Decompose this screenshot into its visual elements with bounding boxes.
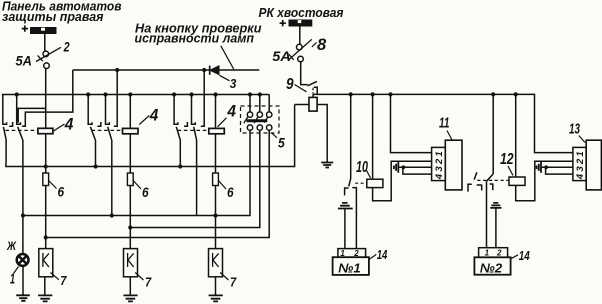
wire: coil 4c to resistor 6c [215, 134, 217, 173]
svg-text:4: 4 [149, 107, 159, 125]
svg-text:2: 2 [63, 40, 70, 55]
label 14 (box №2) [511, 249, 530, 263]
lamp unit 7a [39, 249, 53, 277]
connector 5 upper pin circles [247, 112, 272, 117]
mechanical link 4a [5, 129, 38, 131]
coil of relay 9 [309, 97, 317, 111]
label 7b [135, 273, 152, 290]
box №1 terminal block [338, 249, 366, 258]
relay 4b contact B arm [108, 127, 112, 140]
wire: ground to connector 11 pin 3 [398, 166, 431, 168]
junction dot pin 3 (11) [402, 165, 406, 169]
relay 4c contact B feed [192, 95, 196, 125]
lamp test line (to test button) [73, 69, 259, 71]
relay 4a contact B feed [17, 95, 21, 125]
label 5А (breaker 2) [16, 53, 33, 69]
resistor 6c [213, 173, 219, 186]
label Ж [6, 241, 17, 253]
lamp unit 7c [209, 249, 223, 277]
mechanical link 4b [92, 129, 123, 131]
unit 12 [509, 177, 525, 185]
wire: coil 4b to resistor 6b [129, 134, 131, 173]
svg-text:5: 5 [278, 136, 285, 151]
connector 11 pin block [432, 147, 446, 180]
junction dots on main bus [15, 92, 262, 96]
svg-text:4: 4 [226, 102, 236, 120]
label №2 [480, 260, 503, 275]
wire: ground to connector 13 pin 3 [541, 166, 573, 168]
relay 4c contact A arm [176, 127, 180, 140]
wire: arm B of 4b down to line A [111, 140, 113, 216]
connector 5 interface bar [247, 119, 268, 122]
wire: right bus to switch of unit 12 [492, 94, 494, 174]
label 6c [218, 181, 234, 200]
relay 4a contact A fixed stub [9, 122, 12, 126]
mechanical link relay 9 [312, 88, 314, 94]
svg-text:РК хвостовая: РК хвостовая [259, 5, 344, 20]
ground (7c) [209, 295, 223, 301]
switch arm right (unit 12) and wire to box №2 pin 1 [487, 174, 494, 248]
wire: arm B of 4a down to lamp 1 [22, 140, 24, 254]
wire: arm A down to common line [5, 140, 7, 163]
wire: ground stack to box №1 pin 1 [344, 209, 346, 249]
label 4 (group c) [218, 102, 237, 126]
svg-text:4: 4 [64, 115, 74, 133]
ground (lamp 1) [16, 295, 30, 301]
lamp-test step wire to contact B stub of 4a [22, 70, 73, 126]
wire: arm A of 4b to common line [95, 140, 97, 167]
relay 9 contact arm [308, 81, 317, 85]
relay group 4a: contact A feed [3, 95, 7, 125]
wire: connector 13 pin 4 to ground point [546, 167, 573, 174]
connector 5 engagement slashes [244, 117, 268, 123]
wire: unit 12 to connector 13 pin 2 [516, 161, 573, 200]
switch terminal right (to box №1 pin 2) [352, 188, 357, 249]
label 14 (box №1) [369, 248, 387, 262]
wire: breaker 2 down through bus to coil 4a [45, 69, 47, 129]
wire: 7c to ground [215, 277, 217, 295]
right bus from relay 9 to connector 13 pin 1 [313, 94, 573, 152]
svg-text:5А: 5А [272, 48, 291, 64]
relay 4a contact A arm [3, 127, 6, 140]
wire: lamp 1 to ground [22, 266, 24, 295]
coil 4c [209, 128, 225, 133]
svg-text:6: 6 [227, 185, 234, 200]
wire: coil 9 top to right bus [312, 94, 314, 97]
svg-text:9: 9 [286, 76, 294, 93]
line C: resistor 6a column to connector 5 pin 3 [46, 130, 270, 237]
pin numbers 4321 (connector 13) [575, 149, 586, 180]
wire: bus to coil 4c [215, 95, 217, 129]
wire: right bus to connector 11 pin 1 [391, 94, 432, 152]
wire: arm B of 4c down to line A [196, 140, 198, 216]
common return line to relay 9 [6, 105, 295, 167]
circuit breaker 2 (АЗС 5А) [36, 47, 61, 68]
wire: coil 4a to resistor 6a [45, 134, 47, 173]
wire: 7b to ground [129, 277, 131, 295]
unit 10 [367, 179, 383, 187]
junction dots line A [21, 213, 218, 217]
box №2 pin numbers [485, 248, 502, 257]
mechanical link to unit 10 [355, 182, 367, 184]
box №2 terminal block [479, 248, 508, 258]
wire: bus to coil 4b [129, 95, 131, 129]
connector 13 body [586, 140, 601, 190]
relay group 4c: contact A feed [174, 95, 178, 125]
title: Панель автоматов защиты правая [2, 0, 122, 24]
svg-text:10: 10 [356, 159, 368, 176]
svg-text:исправности ламп: исправности ламп [135, 31, 255, 45]
label 4 (group b) [139, 107, 158, 125]
relay 4b contact B feed [106, 95, 110, 125]
svg-text:№2: №2 [480, 260, 503, 275]
label 13 [569, 120, 585, 142]
label 12 [500, 151, 514, 176]
ground (coil 9) [321, 163, 333, 168]
bus bar (РК) right [289, 20, 313, 27]
svg-text:7: 7 [230, 275, 237, 290]
wire: bar to breaker 8 [299, 27, 301, 45]
pin numbers 4321 (connector 11) [434, 149, 445, 180]
label 1 [10, 267, 19, 288]
box №2 body [474, 257, 510, 274]
inverted ground on box №1 pin 1 wire [338, 203, 353, 209]
main bus left [2, 94, 269, 96]
svg-text:3: 3 [230, 77, 237, 91]
svg-text:5А: 5А [16, 53, 33, 69]
label 4 (group a) [54, 115, 74, 133]
svg-text:4321: 4321 [434, 149, 445, 180]
label 7a [51, 273, 68, 289]
relay 4c contact A fixed stub [184, 122, 187, 126]
label 6a [49, 181, 65, 200]
resistor 6b [127, 173, 133, 186]
label 10 [356, 159, 371, 178]
coil 4b [123, 128, 139, 133]
wire: breaker 8 to relay 9 contact [301, 62, 308, 85]
label 8 [312, 36, 327, 54]
lamp unit 7b [124, 249, 138, 277]
label №1 [338, 260, 361, 275]
wire: coil 9 left side to common return [295, 104, 309, 106]
diode 3 [210, 66, 219, 75]
step wire from coil feed to contact B column [18, 108, 46, 122]
svg-text:12: 12 [500, 151, 514, 168]
wire: right bus to unit 10 [372, 94, 374, 179]
svg-text:Ж: Ж [6, 241, 17, 253]
relay 4b contact A fixed stub [97, 122, 100, 126]
label 5 [272, 133, 286, 151]
leader from text to lamp-test line [221, 46, 234, 70]
relay 4b contact A arm [90, 127, 95, 140]
plus terminal right [280, 20, 286, 26]
svg-text:4321: 4321 [575, 149, 586, 180]
svg-text:7: 7 [60, 273, 67, 288]
label 5А (breaker 8) [272, 48, 291, 64]
circuit breaker 8 (АЗС 5А) [289, 39, 312, 62]
label 6b [133, 181, 149, 200]
resistor 6a [43, 173, 49, 186]
ground (connector 13 pin 3) [537, 162, 541, 173]
svg-text:1: 1 [10, 270, 15, 287]
junction dot line B [128, 225, 132, 229]
svg-text:8: 8 [317, 36, 327, 54]
junction dots on common return line [44, 164, 183, 168]
wire: bar to breaker 2 [44, 34, 46, 51]
switch terminal 3 (12) [490, 184, 494, 190]
text: На кнопку проверки исправности ламп [135, 22, 262, 46]
coil 4a [38, 128, 53, 133]
svg-text:7: 7 [145, 275, 152, 290]
wire: unit 10 to connector 11 pin 2 [373, 161, 432, 200]
wire: right bus to unit 12 [515, 94, 517, 177]
bus bar (panel) left [30, 27, 57, 34]
switch arm left (unit 12) [474, 172, 477, 179]
title: РК хвостовая [259, 5, 344, 20]
junction dots on lamp test line [115, 68, 206, 72]
switch terminal left (to ground of box №1) [344, 188, 349, 195]
wire: arm A of 4c to common line [179, 140, 181, 167]
lamp-test feed to contact B stub of 4b [114, 70, 117, 126]
ground (7b) [123, 295, 137, 301]
svg-text:2: 2 [496, 248, 502, 257]
svg-text:№1: №1 [338, 260, 361, 275]
ground (connector 11 pin 3) [394, 162, 398, 173]
connector 5 dashed outline [241, 106, 280, 133]
junction dot line C [44, 235, 48, 239]
wire: connector 11 pin 4 to ground point [403, 167, 432, 174]
relay group 4b: contact A feed [88, 95, 92, 125]
connector 5 lower pin circles [247, 125, 272, 130]
svg-text:1: 1 [485, 248, 490, 257]
box №1 body [333, 257, 369, 275]
svg-text:защиты правая: защиты правая [2, 9, 104, 24]
svg-text:14: 14 [377, 248, 388, 262]
connector 11 body [445, 140, 462, 190]
svg-text:13: 13 [569, 120, 580, 137]
svg-text:14: 14 [519, 249, 530, 263]
label 7c [220, 273, 237, 290]
svg-text:11: 11 [439, 114, 449, 131]
label 2 [63, 40, 70, 55]
relay 4a contact B arm [18, 127, 23, 140]
label 9 [286, 76, 307, 93]
lamp-test feed to contact B stub of 4c [201, 70, 204, 126]
label 3 [220, 75, 237, 91]
line B: resistor 6b column to connector 5 pin 2 [130, 130, 259, 227]
wire: ground stack to box №2 pin 2 [495, 208, 497, 247]
junction dots on right bus [349, 92, 518, 96]
svg-text:6: 6 [142, 185, 149, 200]
mechanical link to unit 12 [477, 179, 509, 181]
wire: resistor 6a down to lamp 7a [45, 186, 47, 249]
mechanical link 4c [178, 129, 209, 131]
connector 13 pin block [573, 147, 586, 180]
signal lamp 1 (Ж) [17, 254, 29, 266]
label 11 [439, 114, 452, 139]
switch terminal 2 (12) [477, 185, 483, 191]
switch arm (unit 10) [349, 179, 351, 187]
wire: resistor 6c down to lamp 7c [215, 186, 217, 249]
ground (7a) [38, 295, 52, 301]
box №1 pin numbers [340, 249, 359, 258]
switch terminal 1 (12) [467, 184, 472, 191]
wire: resistor 6b down to lamp 7b [129, 186, 131, 249]
inverted ground on box №2 pin 2 wire [490, 203, 501, 208]
relay 4c contact B arm [194, 127, 197, 140]
svg-text:6: 6 [58, 184, 65, 199]
line A: arms B to connector 5 pin 1 [23, 130, 250, 215]
wires: connector 5 top pins to bus [250, 95, 269, 112]
wire: right bus to switch of unit 10 [350, 94, 352, 178]
plus terminal left [22, 25, 28, 31]
relay 9 contact terminal [314, 87, 317, 94]
wire: coil 9 right side to ground [317, 105, 327, 163]
wire: 7a to ground [44, 277, 46, 295]
junction dot pin 3 (13) [544, 165, 548, 169]
